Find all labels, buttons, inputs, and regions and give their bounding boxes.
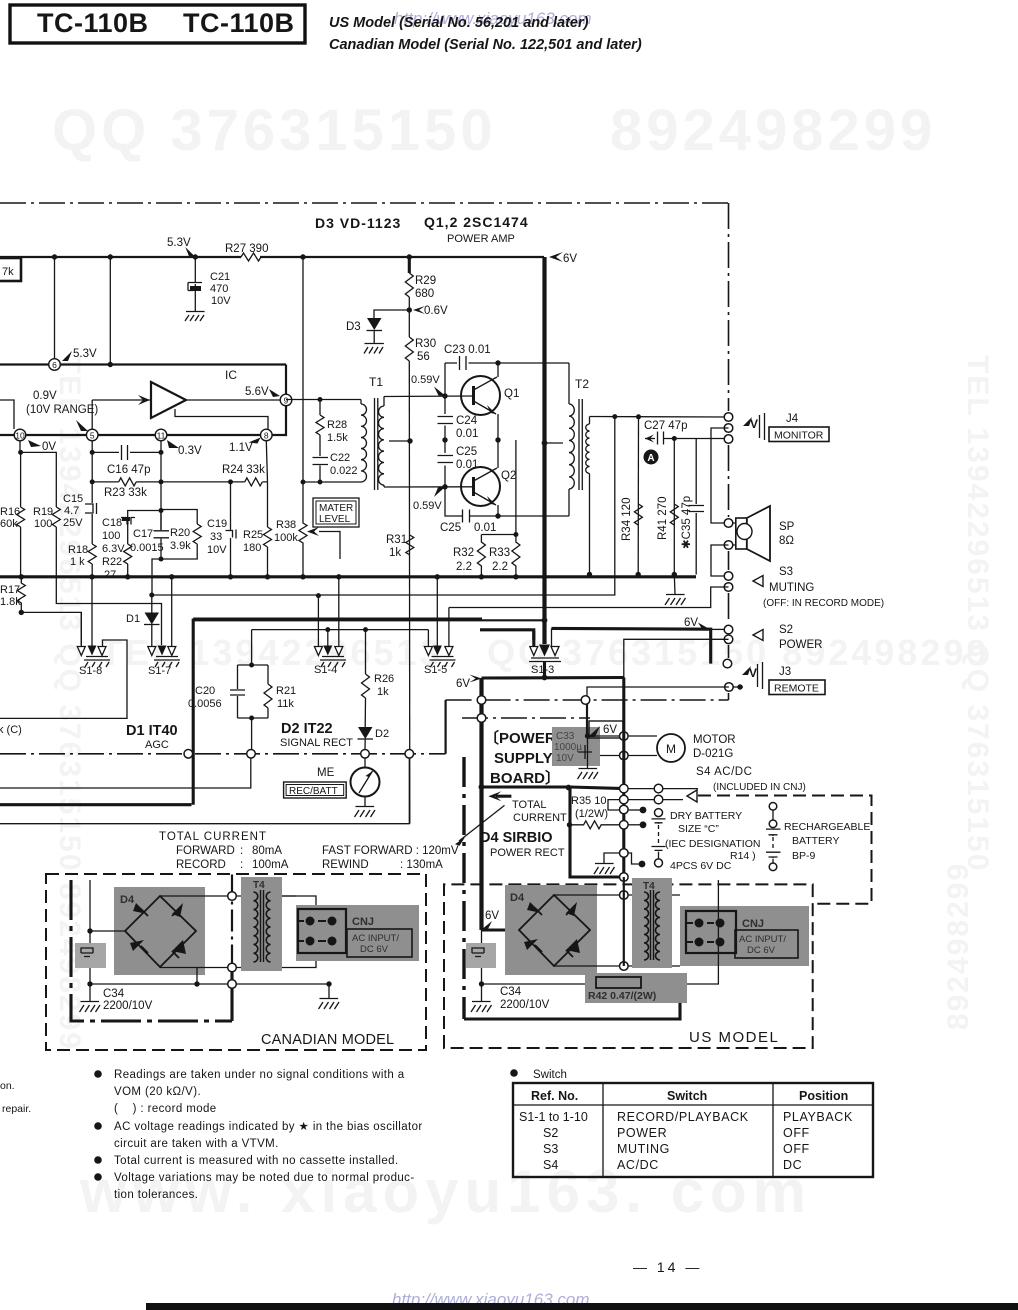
svg-text:AC INPUT/: AC INPUT/ bbox=[739, 934, 786, 945]
svg-text:FORWARD: FORWARD bbox=[176, 845, 235, 857]
svg-text:D3: D3 bbox=[346, 321, 361, 333]
box REC/BATT bbox=[284, 782, 347, 798]
svg-text:C24: C24 bbox=[456, 415, 478, 427]
wire D3 to ground bbox=[373, 331, 375, 344]
us model dashed box bbox=[444, 884, 813, 1048]
svg-text:C21: C21 bbox=[210, 271, 230, 283]
resistor R34 bbox=[634, 504, 642, 525]
wire long return y=823.7 bbox=[0, 823, 410, 825]
svg-text:2.2: 2.2 bbox=[456, 561, 472, 573]
svg-text:S1-1 to 1-10: S1-1 to 1-10 bbox=[519, 1110, 588, 1124]
svg-text:BOARD〕: BOARD〕 bbox=[490, 769, 560, 787]
junction R23 right bbox=[159, 479, 164, 484]
junction T2 sec bus bbox=[587, 572, 592, 577]
svg-text:TC-110B: TC-110B bbox=[37, 8, 149, 38]
transformer T1 core bbox=[375, 398, 378, 490]
terminal AGC border 409 bbox=[405, 750, 414, 759]
junction R41 bus bbox=[672, 572, 677, 577]
svg-text:S1-4: S1-4 bbox=[314, 664, 337, 676]
switch S2 triangle bbox=[753, 630, 763, 641]
svg-text:— 14 —: — 14 — bbox=[633, 1259, 702, 1275]
svg-text:US MODEL: US MODEL bbox=[689, 1029, 779, 1046]
svg-text:D4: D4 bbox=[120, 894, 135, 906]
svg-text:REC/BATT: REC/BATT bbox=[289, 786, 338, 797]
arrow 0V bbox=[28, 440, 41, 447]
wire node10 lower drop bbox=[20, 441, 56, 507]
svg-text:Switch: Switch bbox=[533, 1069, 567, 1081]
svg-text:OFF: OFF bbox=[783, 1142, 810, 1156]
junction R23 left bbox=[90, 479, 95, 484]
wire SP to S3 bbox=[711, 545, 729, 576]
wire D3 branch bbox=[374, 310, 409, 318]
arrow 0.59V lower bbox=[434, 488, 445, 498]
ground meter bbox=[355, 807, 376, 818]
svg-text:D4 SIRBIO: D4 SIRBIO bbox=[480, 830, 553, 846]
svg-text:✱C35 47p: ✱C35 47p bbox=[681, 496, 693, 549]
wire thick 6V feed y=788 bbox=[482, 787, 624, 789]
junction J3 sleeve dot bbox=[737, 684, 742, 689]
junction 20,452 bbox=[18, 450, 23, 455]
wire S2 feed thick bbox=[552, 628, 711, 663]
svg-text:8Ω: 8Ω bbox=[779, 535, 794, 547]
ground PSB bbox=[594, 864, 615, 875]
wire R28 to C22 bbox=[319, 435, 321, 456]
wire C21 to ground bbox=[194, 291, 196, 311]
wire R29 to junction bbox=[408, 297, 410, 337]
resistor R16 bbox=[17, 507, 25, 527]
transformer T2 primary bbox=[568, 363, 570, 516]
svg-text:k (C): k (C) bbox=[0, 724, 22, 736]
switch S3 triangle bbox=[753, 576, 763, 587]
svg-text:IC: IC bbox=[225, 368, 237, 382]
svg-text:6V: 6V bbox=[456, 678, 470, 690]
wire C20 cell to border bbox=[251, 718, 253, 750]
ground bus y=576.8 bbox=[0, 575, 696, 578]
wire Q2 collector-emitter column bbox=[497, 440, 499, 516]
svg-text:0.0015: 0.0015 bbox=[130, 542, 164, 554]
wire C15 to R18 bbox=[91, 514, 93, 544]
junction 320,399 bbox=[318, 397, 323, 402]
svg-text:OFF: OFF bbox=[783, 1126, 810, 1140]
resistor R19 bbox=[52, 507, 60, 527]
wire J3 net into PSB bbox=[586, 700, 588, 736]
terminal J3 sleeve bbox=[725, 683, 734, 692]
svg-text:S3: S3 bbox=[779, 566, 793, 578]
switch S1-3 bbox=[529, 645, 561, 662]
svg-text:AC voltage readings indicat: AC voltage readings indicated by ★ in th… bbox=[114, 1121, 423, 1133]
wire R25 to bus bbox=[267, 547, 269, 577]
terminal can border 896 bbox=[228, 892, 237, 901]
junction C16 right bbox=[159, 450, 164, 455]
svg-text:(INCLUDED IN CNJ): (INCLUDED IN CNJ) bbox=[713, 782, 806, 793]
svg-text:Canadian Model (Serial No. 122: Canadian Model (Serial No. 122,501 and l… bbox=[329, 37, 642, 53]
wire C17 legs bbox=[160, 511, 162, 560]
svg-text:MUTING: MUTING bbox=[769, 582, 814, 594]
svg-text:RECORD/PLAYBACK: RECORD/PLAYBACK bbox=[617, 1110, 749, 1124]
transformer T4 canadian blob bbox=[241, 877, 282, 971]
svg-text:: 130mA: : 130mA bbox=[400, 859, 443, 871]
terminal S2 a bbox=[724, 625, 733, 634]
terminal J4 tip bbox=[724, 413, 733, 422]
junction C19 top bbox=[228, 479, 233, 484]
capacitor C27 bbox=[658, 432, 664, 445]
svg-text:SIGNAL RECT: SIGNAL RECT bbox=[280, 737, 353, 749]
terminal motor top bbox=[620, 732, 629, 741]
board border right dash-dot vertical bbox=[728, 203, 730, 700]
svg-text:Switch: Switch bbox=[667, 1089, 707, 1103]
svg-text:C25: C25 bbox=[440, 522, 461, 534]
wire us cap drop bbox=[481, 930, 483, 1001]
connector CNJ canadian blob bbox=[296, 905, 419, 961]
svg-text::: : bbox=[240, 845, 243, 857]
svg-text:R41 270: R41 270 bbox=[657, 497, 669, 540]
wire T4 right top bbox=[282, 896, 316, 909]
svg-text:D2: D2 bbox=[375, 728, 389, 740]
wire C17 cell to AGC bbox=[152, 559, 161, 595]
junction S1-8 mid bus bbox=[89, 574, 94, 579]
wire S4 row1 ext bbox=[663, 788, 698, 790]
svg-text:R21: R21 bbox=[276, 685, 296, 697]
table column line 1 bbox=[602, 1083, 604, 1177]
terminal us 681,984 bbox=[677, 980, 686, 989]
arrow 1.1V bbox=[249, 438, 261, 444]
terminal us 624,895 bbox=[620, 891, 629, 900]
jack J3 symbol bbox=[742, 666, 751, 675]
svg-text:S1-3: S1-3 bbox=[531, 664, 554, 676]
wire R25 upper bbox=[267, 482, 269, 527]
junction R26 feed bbox=[363, 627, 368, 632]
terminal can border 968 bbox=[228, 963, 237, 972]
svg-text:680: 680 bbox=[415, 288, 434, 300]
junction totem mid bbox=[495, 437, 500, 442]
svg-text:0.6V: 0.6V bbox=[424, 305, 448, 317]
svg-text:7k: 7k bbox=[2, 266, 14, 278]
wire us ground row y=984 bbox=[482, 983, 678, 985]
wire motor feed bottom bbox=[600, 755, 657, 757]
svg-text:4PCS 6V DC: 4PCS 6V DC bbox=[670, 860, 732, 872]
junction C19 bus bbox=[228, 574, 233, 579]
svg-text:5.6V: 5.6V bbox=[245, 386, 269, 398]
svg-text:11: 11 bbox=[157, 431, 166, 441]
capacitor C17 bbox=[154, 531, 170, 538]
board border PSB left thick dash vertical bbox=[462, 757, 465, 1019]
svg-text:C15: C15 bbox=[63, 493, 83, 505]
svg-text:Voltage variations may be: Voltage variations may be noted due to n… bbox=[114, 1172, 415, 1184]
wire R18 to bus bbox=[91, 564, 93, 577]
junction R25 bus bbox=[265, 574, 270, 579]
wire D1 to S1-7 bbox=[151, 595, 153, 646]
svg-text:D-021G: D-021G bbox=[693, 748, 733, 760]
node 6 bbox=[49, 359, 61, 371]
notes bullet 4 bbox=[94, 1173, 102, 1181]
svg-text:1 k: 1 k bbox=[70, 556, 85, 568]
terminal S4 row1 bbox=[654, 784, 663, 793]
wire node5 lower vertical bbox=[91, 441, 93, 503]
wire node6 drop bbox=[54, 257, 56, 359]
svg-text:A: A bbox=[647, 453, 654, 464]
arrow total current pointer bbox=[496, 795, 511, 798]
box AC INPUT canadian bbox=[347, 929, 412, 957]
notes bullet 3 bbox=[94, 1156, 102, 1164]
svg-text:T2: T2 bbox=[575, 377, 589, 391]
svg-text:circuit are taken with a: circuit are taken with a VTVM. bbox=[114, 1138, 279, 1150]
svg-text:R26: R26 bbox=[374, 673, 394, 685]
node 11 bbox=[155, 429, 167, 441]
junction at 54.5,257 bbox=[52, 254, 57, 259]
svg-text:0.0056: 0.0056 bbox=[188, 698, 222, 710]
svg-text:R22: R22 bbox=[102, 556, 122, 568]
svg-text:( ) : record mode: ( ) : record mode bbox=[114, 1103, 217, 1115]
junction R33 top bbox=[513, 532, 518, 537]
svg-text:MONITOR: MONITOR bbox=[774, 430, 824, 442]
svg-text:C17: C17 bbox=[133, 528, 153, 540]
junction S1-3 common bbox=[542, 675, 548, 681]
svg-text:AC/DC: AC/DC bbox=[617, 1158, 659, 1172]
node 5 bbox=[86, 429, 98, 441]
svg-text:TC-110B: TC-110B bbox=[183, 8, 295, 38]
terminal 623 y809 bbox=[620, 805, 629, 814]
svg-text:1.5k: 1.5k bbox=[327, 432, 348, 444]
diode D2 bbox=[358, 727, 373, 739]
svg-text:BATTERY: BATTERY bbox=[792, 835, 839, 847]
bridge D4 canadian diamond bbox=[125, 896, 196, 967]
svg-text:T4: T4 bbox=[253, 880, 265, 891]
svg-text:R14 ): R14 ) bbox=[730, 850, 756, 862]
transformer T1 primary bbox=[360, 400, 362, 405]
junction S1-4 left on muting wire bbox=[316, 593, 321, 598]
wire AGC thick bottom y=804.7 bbox=[0, 803, 192, 806]
junction Q2 emitter bbox=[495, 513, 500, 518]
svg-text:DC 6V: DC 6V bbox=[360, 944, 389, 955]
svg-text:J4: J4 bbox=[786, 413, 799, 425]
svg-text:D1 IT40: D1 IT40 bbox=[126, 723, 178, 739]
arrow 6V S1-3 bbox=[470, 675, 482, 683]
wire meter top bbox=[364, 758, 366, 768]
resistor R24 bbox=[245, 478, 263, 486]
svg-text:S1-8: S1-8 bbox=[79, 665, 102, 677]
wire C18 branch top bbox=[128, 511, 161, 518]
switch table frame bbox=[513, 1083, 873, 1177]
canadian board boundary lower thick bbox=[230, 965, 233, 1021]
wire thick feed y=620 bbox=[193, 619, 544, 621]
svg-text:D2 IT22: D2 IT22 bbox=[281, 721, 333, 737]
arrow op-amp input bbox=[138, 395, 150, 405]
wire R26 to D2 bbox=[364, 698, 366, 727]
junction T1 tap bbox=[407, 438, 412, 443]
terminal us 624,966 bbox=[620, 962, 629, 971]
ground D3 bbox=[364, 344, 384, 354]
capacitor C33 blob bbox=[552, 727, 600, 766]
ground us C34 bbox=[471, 1002, 492, 1013]
svg-text:S4: S4 bbox=[543, 1158, 558, 1172]
ground canadian C34 bbox=[80, 1002, 101, 1013]
wire R41 ground stub bbox=[673, 575, 676, 595]
wire T2 secondary top row y=416.5 bbox=[590, 416, 729, 419]
transistor Q2 bbox=[461, 467, 500, 506]
terminal 623 y799 bbox=[620, 795, 629, 804]
svg-text:Total current is measured: Total current is measured with no casset… bbox=[114, 1155, 399, 1167]
terminal can border 984 bbox=[228, 980, 237, 989]
wire meter net left bbox=[250, 758, 252, 788]
capacitor C16 bbox=[122, 445, 128, 460]
svg-text:27: 27 bbox=[104, 569, 116, 581]
svg-text:S4 AC/DC: S4 AC/DC bbox=[696, 766, 752, 778]
box MATER LEVEL bbox=[313, 498, 359, 527]
svg-text:2200/10V: 2200/10V bbox=[103, 1000, 153, 1012]
svg-text:1.8k: 1.8k bbox=[0, 596, 21, 608]
junction T2 tap rail bbox=[542, 440, 548, 446]
svg-text:R34 120: R34 120 bbox=[621, 498, 633, 541]
junction 320,482 bbox=[318, 480, 323, 485]
switch S1-8 bbox=[77, 646, 110, 668]
terminal PSB border 585 bbox=[581, 696, 590, 705]
wire Q1 collector-emitter column bbox=[497, 363, 499, 440]
svg-text:CNJ: CNJ bbox=[742, 918, 764, 930]
svg-text:D1: D1 bbox=[126, 613, 140, 625]
svg-text:RECORD: RECORD bbox=[176, 859, 226, 871]
table column line 2 bbox=[772, 1083, 774, 1177]
junction at 110,364 bbox=[108, 362, 113, 367]
battery section dashed box bbox=[698, 796, 872, 904]
svg-text:0V: 0V bbox=[42, 441, 56, 453]
wire S2 terminal spur bbox=[711, 628, 725, 630]
resistor R17 bbox=[17, 577, 25, 613]
svg-text:QQ 376315150 892498299: QQ 376315150 892498299 bbox=[487, 632, 989, 673]
resistor R29 bbox=[405, 273, 413, 297]
terminal S4 row2 bbox=[654, 795, 663, 804]
box AC INPUT us bbox=[735, 930, 798, 958]
rechargeable battery symbol bbox=[766, 803, 781, 871]
svg-text:MATER: MATER bbox=[319, 503, 353, 514]
wire T4 right bottom bbox=[296, 953, 316, 968]
terminal J4 sleeve bbox=[724, 435, 733, 444]
wire vertical x=303 feed bbox=[302, 257, 304, 482]
capacitor C23 bbox=[460, 356, 467, 370]
wire bridge top out bbox=[160, 895, 296, 897]
wire R23 R24 row bbox=[92, 481, 267, 483]
svg-text:RECHARGEABLE: RECHARGEABLE bbox=[784, 821, 870, 833]
svg-text:POWER: POWER bbox=[617, 1126, 667, 1140]
junction R22 bus bbox=[125, 574, 130, 579]
wire bridge left to cap bbox=[90, 930, 125, 932]
resistor R26 bbox=[362, 674, 370, 698]
terminal AGC border 250 bbox=[247, 750, 256, 759]
svg-text:(OFF: IN RECORD MODE): (OFF: IN RECORD MODE) bbox=[763, 598, 884, 609]
capacitor C22 bbox=[313, 458, 329, 465]
junction C16 left bbox=[90, 450, 95, 455]
transformer T1 secondary bbox=[383, 397, 385, 488]
wire R20 bottom bbox=[161, 544, 197, 559]
wire thick bottom-left of US area bbox=[464, 984, 680, 1019]
resistor R27 bbox=[241, 253, 261, 261]
terminal 623 y824 bbox=[620, 821, 629, 830]
wire S1-4 mid feed bbox=[327, 630, 329, 646]
wire R29 thick stub bbox=[408, 257, 411, 273]
terminal J4 ring bbox=[724, 424, 733, 433]
wire C19 leg lower bbox=[230, 538, 232, 577]
wire S4 row2 bbox=[628, 799, 683, 801]
capacitor C35 bbox=[689, 506, 705, 512]
svg-text:AGC: AGC bbox=[145, 739, 169, 751]
terminal AGC border 188 bbox=[184, 750, 193, 759]
wire S1-4 right feed bbox=[338, 577, 340, 646]
wire 6V row y=629.6 bbox=[252, 630, 429, 646]
svg-text:2200/10V: 2200/10V bbox=[500, 999, 550, 1011]
junction S1-5 bus bbox=[435, 574, 440, 579]
terminal S3 a bbox=[724, 572, 733, 581]
resistor R33 bbox=[512, 535, 520, 577]
wire R17 to S1-8 bbox=[21, 612, 81, 645]
svg-text:2.2: 2.2 bbox=[492, 561, 508, 573]
terminal AGC border 365 bbox=[361, 750, 370, 759]
dry battery symbol bbox=[652, 809, 666, 867]
junction can 90,984 bbox=[87, 981, 92, 986]
wire emitter row y=516 bbox=[461, 515, 569, 517]
svg-text:6V: 6V bbox=[684, 617, 698, 629]
arrow 6V us bbox=[481, 921, 492, 930]
wire S1-7 right feed bbox=[171, 577, 173, 646]
junction 638,417 bbox=[636, 414, 641, 419]
svg-text:80mA: 80mA bbox=[252, 845, 282, 857]
svg-text:0.9V: 0.9V bbox=[33, 390, 57, 402]
junction R32 bus bbox=[479, 574, 484, 579]
svg-text:R29: R29 bbox=[415, 275, 436, 287]
svg-text:(10V RANGE): (10V RANGE) bbox=[26, 404, 98, 416]
junction C17 top bbox=[159, 508, 164, 513]
wire IC box right side bbox=[272, 365, 286, 436]
terminal SP plus bbox=[724, 519, 733, 528]
svg-text:D3 VD-1123: D3 VD-1123 bbox=[315, 215, 401, 231]
svg-text:tion tolerances.: tion tolerances. bbox=[114, 1189, 198, 1201]
svg-text:6.3V: 6.3V bbox=[102, 543, 125, 555]
svg-text:V: V bbox=[749, 666, 757, 680]
svg-text:11k: 11k bbox=[277, 698, 294, 710]
junction at 110,257 bbox=[108, 254, 113, 259]
bridge D4 us diamond bbox=[519, 895, 590, 966]
wire 6V thick y=677.5 bbox=[482, 676, 624, 680]
rail 6V vertical x=544 bbox=[542, 257, 546, 644]
wire bus to S1-7 L-path bbox=[56, 577, 161, 645]
junction C20 top bbox=[249, 663, 254, 668]
wire R19 to bus bbox=[55, 527, 57, 577]
ground canadian right bbox=[319, 984, 340, 1009]
canadian cap input rail bbox=[89, 880, 91, 1001]
arrow 6V top bbox=[549, 252, 563, 262]
svg-text:DC: DC bbox=[783, 1158, 802, 1172]
wire T2 center tap to rail bbox=[545, 442, 564, 444]
switch S1-4 bbox=[314, 646, 346, 668]
junction S1-4 feed bbox=[325, 627, 330, 632]
svg-text:0.01: 0.01 bbox=[474, 522, 496, 534]
svg-text:6V: 6V bbox=[563, 253, 577, 265]
arrow 5.3V node6 bbox=[62, 351, 72, 361]
wire motor feed top bbox=[588, 735, 658, 737]
svg-text:10V: 10V bbox=[211, 295, 231, 307]
ground C21 bbox=[185, 312, 205, 322]
svg-text:POWER: POWER bbox=[779, 639, 822, 651]
wire node8 to R24 bbox=[266, 441, 267, 482]
svg-text:5.3V: 5.3V bbox=[73, 348, 97, 360]
svg-text:Q1: Q1 bbox=[504, 388, 519, 400]
junction R35 left bbox=[567, 822, 572, 827]
svg-text:R24 33k: R24 33k bbox=[222, 464, 265, 476]
arrow 5.3V top bbox=[185, 247, 195, 257]
junction S1-4 right bus bbox=[336, 574, 341, 579]
svg-text:R30: R30 bbox=[415, 338, 436, 350]
svg-text:892498299: 892498299 bbox=[610, 98, 936, 163]
wire AGC in y=718.4 bbox=[0, 640, 127, 718]
svg-text:Q2: Q2 bbox=[501, 470, 516, 482]
